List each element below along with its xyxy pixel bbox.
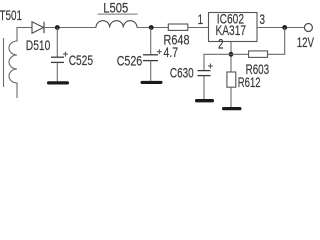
svg-text:3: 3 — [260, 11, 266, 27]
capacitor C630 — [198, 64, 213, 76]
op-amp U1: IC602 KA317 regulator box — [209, 13, 258, 42]
node junction dot A — [55, 25, 60, 30]
wire node A down to C525 — [56, 28, 58, 58]
svg-text:1: 1 — [198, 11, 204, 27]
svg-text:C526: C526 — [117, 53, 143, 69]
capacitor C526 — [143, 49, 162, 60]
wire C526 to ground — [150, 61, 152, 81]
svg-text:D510: D510 — [26, 37, 51, 53]
wire node C left to C630 — [204, 54, 231, 70]
svg-text:C630: C630 — [170, 64, 194, 80]
wire C630 to ground — [203, 76, 205, 99]
node junction dot C (pin2 node) — [229, 52, 234, 57]
transformer T501 core line — [3, 38, 5, 87]
svg-text:2: 2 — [218, 35, 224, 51]
svg-text:T501: T501 — [0, 7, 22, 23]
inductor L505 — [96, 21, 137, 28]
wire node C right to R603 — [231, 53, 249, 55]
node junction dot D (output) — [282, 25, 287, 30]
label L505 underline — [98, 13, 138, 15]
capacitor C525 — [51, 52, 68, 63]
transformer T501 winding — [9, 28, 17, 99]
wire inductor to R648 — [137, 27, 168, 29]
wire R603 up to output node — [268, 28, 285, 55]
ground (C526) — [141, 81, 163, 84]
svg-text:4.7: 4.7 — [164, 44, 179, 60]
wire node B down to C526 — [150, 28, 152, 55]
svg-text:R612: R612 — [238, 74, 261, 90]
resistor R612 — [227, 72, 236, 87]
node junction dot B — [149, 25, 154, 30]
wire rail left to diode — [17, 27, 33, 29]
svg-text:12V: 12V — [297, 34, 315, 50]
wire R648 to IC pin 1 — [188, 27, 209, 29]
svg-text:L505: L505 — [103, 0, 128, 15]
ground (C525) — [47, 81, 69, 84]
wire diode to inductor — [44, 27, 96, 29]
resistor R648 — [168, 24, 188, 30]
svg-text:C525: C525 — [69, 52, 93, 68]
resistor R603 — [249, 51, 268, 58]
diode D510 — [32, 22, 44, 33]
wire C525 to ground — [56, 62, 58, 81]
wire IC pin 3 to 12V terminal — [257, 27, 304, 29]
ground (R612) — [222, 107, 242, 110]
ground (C630) — [195, 99, 214, 102]
wire R612 to ground — [230, 87, 232, 107]
wire IC pin 2 down — [230, 42, 232, 73]
terminal 12V circle — [304, 24, 312, 32]
